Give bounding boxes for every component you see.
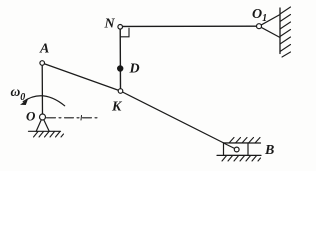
wall line at O1 xyxy=(279,8,281,54)
link AKB (connecting rod, segment A to K) xyxy=(42,63,120,91)
dash-dot center line from O xyxy=(47,117,100,119)
slider guide bottom rail xyxy=(217,154,261,156)
slider guide bottom hatching xyxy=(222,156,261,161)
pin joint K xyxy=(118,89,123,94)
fixed pivot O: triangle support xyxy=(36,117,49,131)
pin joint O1 xyxy=(257,24,262,29)
ground line at O xyxy=(29,130,61,132)
ground hatching at O xyxy=(34,132,64,138)
link AKB (connecting rod, segment K to B) xyxy=(121,91,237,150)
point D (marked point on rod NK) xyxy=(117,65,123,71)
fixed pivot O1: triangle support xyxy=(259,15,280,38)
pin joint B xyxy=(234,147,239,152)
svg-text:ω0: ω0 xyxy=(11,84,26,103)
pin joint N xyxy=(118,25,123,30)
pin joint A xyxy=(40,61,45,66)
svg-text:N: N xyxy=(104,17,116,32)
svg-text:O: O xyxy=(26,109,36,124)
slider block B xyxy=(224,143,249,155)
tick on center line xyxy=(80,116,83,121)
slider guide top rail xyxy=(224,142,261,144)
angular velocity arc arrow (omega0) xyxy=(23,96,64,106)
svg-text:O1: O1 xyxy=(252,7,267,24)
link OA (crank) xyxy=(41,63,43,117)
link NK (vertical rod through D) xyxy=(119,27,121,91)
svg-text:B: B xyxy=(264,143,274,158)
slider guide top hatching xyxy=(229,138,260,144)
rod end inside slider xyxy=(224,143,237,150)
arrowhead of omega0 arc xyxy=(20,99,28,105)
link N-O1 (horizontal rod) xyxy=(120,25,259,27)
wall hatching at O1 xyxy=(280,7,291,57)
svg-text:K: K xyxy=(111,100,123,115)
svg-text:A: A xyxy=(39,42,49,57)
pin joint O xyxy=(40,114,46,120)
svg-text:D: D xyxy=(129,62,140,77)
right-angle mark at N xyxy=(121,28,129,37)
